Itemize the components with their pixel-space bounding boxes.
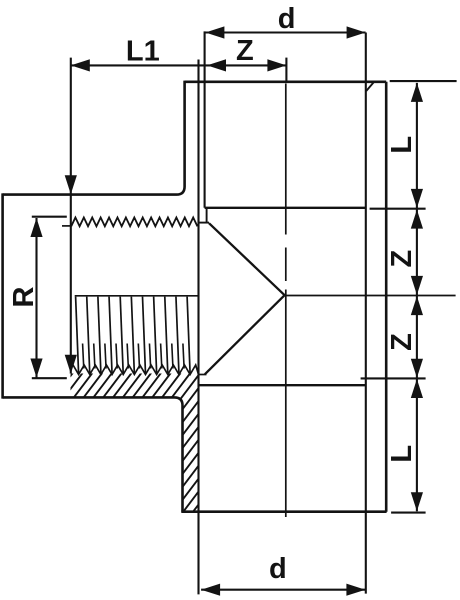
right bore line	[365, 33, 367, 594]
shoulder step vertical	[206, 208, 208, 223]
dimension d top	[205, 31, 365, 33]
svg-text:R: R	[8, 286, 40, 307]
branch centerline	[285, 84, 287, 235]
thread root teeth zigzag	[71, 365, 199, 375]
branch outer left edge with fillet into boss	[3, 81, 185, 195]
svg-text:Z: Z	[386, 333, 418, 351]
thread flank lines	[76, 297, 79, 374]
outer right edge	[385, 82, 388, 512]
svg-text:L: L	[386, 445, 418, 463]
svg-text:d: d	[278, 3, 296, 35]
left bore line	[197, 60, 199, 595]
boss bottom surface with fillet into bottom socket wall	[3, 397, 183, 511]
svg-text:Z: Z	[386, 250, 418, 268]
L1 extension line with surface arrows	[70, 58, 72, 374]
bottom socket stop shoulder	[199, 384, 366, 386]
dimension line L1/Z shared	[71, 64, 287, 66]
thread end tick	[62, 225, 71, 227]
dimension d bottom	[201, 589, 365, 591]
internal cone lower edge	[205, 295, 285, 374]
extension shoulder right	[370, 208, 426, 210]
R extension top	[32, 216, 67, 218]
top socket stop shoulder	[205, 207, 366, 209]
L1 left arrow	[71, 59, 90, 71]
run centerline	[75, 295, 198, 297]
R extension bottom	[32, 377, 67, 379]
threaded boss end face	[1, 193, 4, 398]
extension bottom face right	[391, 512, 426, 514]
internal cone upper edge	[209, 223, 285, 295]
svg-text:L1: L1	[126, 36, 160, 68]
thread crest zigzag	[71, 218, 197, 227]
Z right arrow	[267, 59, 286, 71]
right dimension chain line	[416, 83, 418, 511]
extension top face right	[390, 80, 457, 82]
svg-text:d: d	[269, 553, 287, 585]
svg-text:Z: Z	[236, 35, 254, 67]
socket mouth chamfer	[366, 82, 373, 91]
top-left bore / extension line	[204, 31, 206, 207]
shoulder step horizontal	[199, 222, 210, 224]
bottom face	[181, 510, 386, 513]
Z right extension	[285, 58, 287, 81]
dimension R	[35, 218, 37, 378]
fitting top face	[185, 81, 387, 84]
section hatch lines	[0, 342, 460, 520]
svg-text:L: L	[386, 136, 418, 154]
thread end line at bore	[199, 374, 207, 376]
Z left arrow	[207, 59, 226, 71]
extension lower boundary right	[361, 377, 426, 379]
